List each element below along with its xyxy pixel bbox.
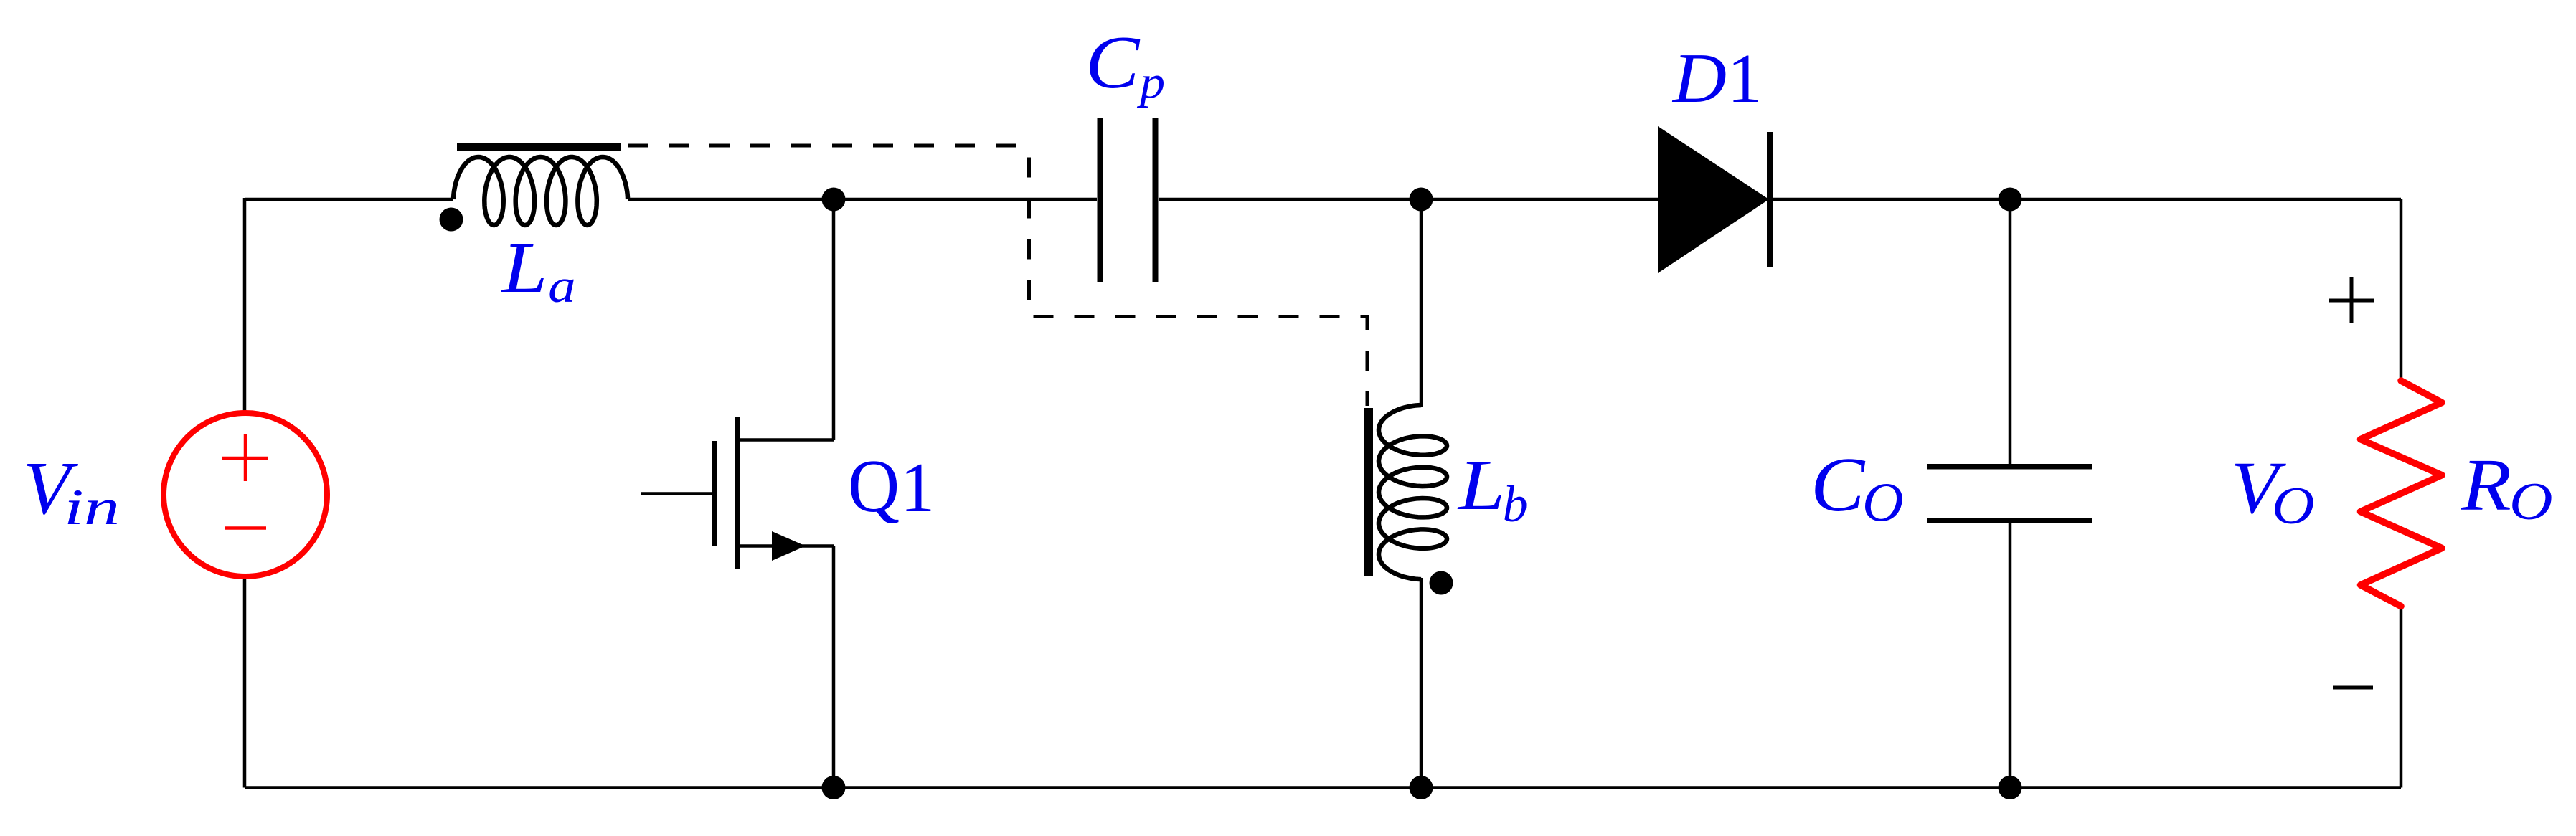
label Q1 xyxy=(848,444,935,528)
inductor La coil xyxy=(453,157,628,225)
node junction dot top at Co xyxy=(1999,188,2022,212)
inductor La polarity dot xyxy=(440,208,463,232)
svg-text:in: in xyxy=(64,479,120,536)
inductor Lb core bar xyxy=(1364,408,1373,576)
svg-text:D: D xyxy=(1671,39,1727,118)
transistor Q1 source lead xyxy=(738,544,834,548)
svg-text:L: L xyxy=(501,228,548,308)
wire Q1 source vertical xyxy=(832,546,836,788)
node junction dot bottom at Co xyxy=(1999,776,2022,799)
node junction dot top at Lb xyxy=(1410,188,1433,212)
node junction dot top at Q1 drain xyxy=(822,188,846,212)
capacitor Co top plate xyxy=(1927,464,2092,470)
Vin minus sign xyxy=(225,526,266,530)
svg-text:R: R xyxy=(2461,445,2511,526)
capacitor Cp left plate xyxy=(1098,118,1103,282)
label Co xyxy=(1811,442,1904,533)
wire bottom rail xyxy=(245,786,2401,789)
label Lb xyxy=(1457,445,1528,533)
svg-text:O: O xyxy=(2509,472,2553,531)
output minus sign xyxy=(2333,686,2373,690)
node junction dot bottom at Lb xyxy=(1410,776,1433,799)
transistor Q1 drain lead xyxy=(738,438,834,442)
coupling dashed line La to Lb (elbow down to Lb) xyxy=(1029,146,1368,406)
inductor La core bar xyxy=(457,143,621,151)
wire right rail lower (Ro bottom to corner) xyxy=(2400,606,2403,788)
resistor Ro zigzag xyxy=(2361,381,2443,607)
transistor Q1 arrow xyxy=(772,531,806,561)
wire top rail middle segment (La to Cp) xyxy=(628,198,1097,201)
transistor Q1 gate lead xyxy=(641,492,712,495)
wire Lb top vertical (node to coil) xyxy=(1420,199,1423,407)
node junction dot bottom at Q1 source xyxy=(822,776,846,799)
svg-text:C: C xyxy=(1085,20,1141,104)
Vin plus sign xyxy=(222,434,268,481)
wire left rail upper (node to Vin top) xyxy=(243,198,247,412)
label Cp xyxy=(1085,20,1165,108)
inductor Lb polarity dot xyxy=(1430,571,1453,595)
label La xyxy=(501,228,576,313)
voltage source Vin circle xyxy=(164,413,327,576)
svg-text:O: O xyxy=(2272,477,2315,536)
svg-text:O: O xyxy=(1862,471,1904,533)
svg-text:b: b xyxy=(1503,475,1528,533)
transistor Q1 channel bar xyxy=(735,417,740,569)
svg-text:p: p xyxy=(1137,57,1165,108)
svg-text:Q: Q xyxy=(848,444,900,528)
wire Lb bottom vertical (coil to bottom rail) xyxy=(1420,578,1423,788)
inductor Lb coil xyxy=(1379,405,1447,579)
wire Co top vertical xyxy=(2009,199,2012,465)
diode D1 cathode bar xyxy=(1767,132,1773,267)
svg-text:1: 1 xyxy=(900,449,935,527)
wire top rail segment (Cp to D1 anode) xyxy=(1159,198,1658,201)
wire Co bottom vertical xyxy=(2009,522,2012,788)
output plus sign xyxy=(2329,277,2374,323)
transistor Q1 gate bar xyxy=(712,441,717,546)
svg-text:a: a xyxy=(548,260,576,313)
label Vo xyxy=(2231,447,2315,536)
wire top rail left segment xyxy=(245,198,453,201)
wire top rail segment (D1 cathode to right corner) xyxy=(1770,198,2401,201)
capacitor Cp right plate xyxy=(1153,118,1159,282)
svg-text:C: C xyxy=(1811,442,1866,528)
wire left rail lower (Vin bottom to bottom rail) xyxy=(243,578,247,788)
svg-text:L: L xyxy=(1457,445,1506,525)
wire right rail upper (corner to Ro top) xyxy=(2400,199,2403,381)
label Ro xyxy=(2461,445,2553,531)
label Vin xyxy=(23,446,120,536)
diode D1 triangle xyxy=(1658,126,1769,273)
label D1 xyxy=(1671,39,1762,118)
svg-text:1: 1 xyxy=(1727,40,1762,118)
wire Q1 drain vertical xyxy=(832,199,836,440)
capacitor Co bottom plate xyxy=(1927,518,2092,524)
coupling dashed line La to Lb (horizontal run) xyxy=(628,144,1029,148)
